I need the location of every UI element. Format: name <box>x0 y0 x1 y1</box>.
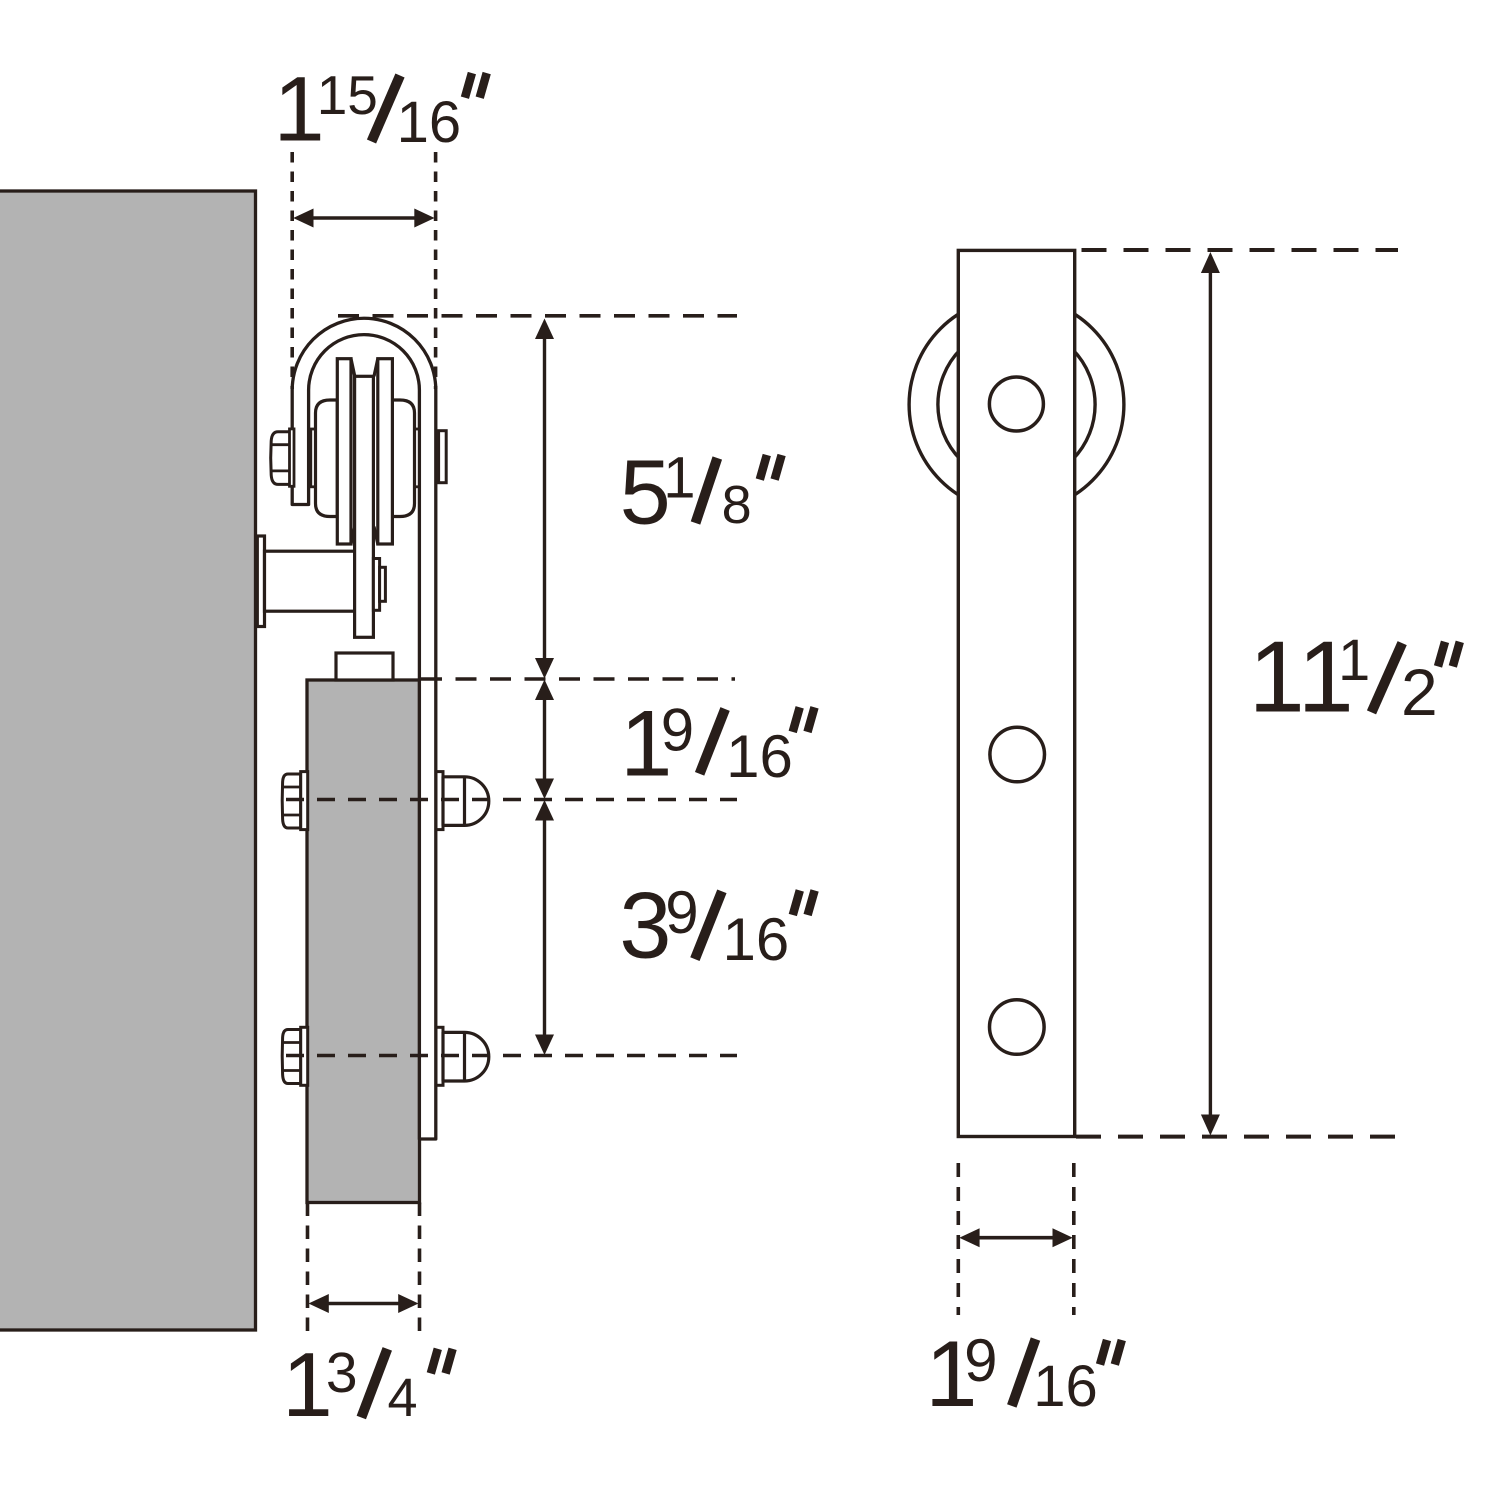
label 1 3/4 inch <box>282 1335 453 1436</box>
axle washer left (between leg and hub) <box>311 429 316 487</box>
door bolt 1 washer right <box>436 772 443 830</box>
svg-text:2: 2 <box>1401 655 1438 729</box>
svg-text:3: 3 <box>326 1341 358 1405</box>
dimension 11 1/2 vertical line with arrowheads <box>1209 264 1212 1124</box>
dimension 1 15/16 arrow <box>308 216 420 220</box>
label 1 9/16 inch (left view) <box>620 691 814 796</box>
dimension 5 1/8 vertical line with arrowheads <box>543 330 546 667</box>
svg-text:9: 9 <box>665 879 698 946</box>
door stop block <box>336 653 393 680</box>
svg-text:1: 1 <box>1249 622 1305 734</box>
dimension 3 9/16 vertical line with arrowheads <box>543 811 546 1044</box>
rail flat bar (vertical, under wheel) <box>355 376 374 637</box>
svg-text:1: 1 <box>663 446 695 511</box>
dimension 1 3/4 dashed extension left <box>306 1203 310 1338</box>
strap top reference dashed line <box>1082 248 1399 252</box>
svg-text:8: 8 <box>722 475 752 535</box>
axle end plate right <box>439 431 447 483</box>
axle washer right (between hub and leg) <box>414 429 419 487</box>
bolt 1 centerline dashed <box>286 798 737 802</box>
label 1 9/16 inch (right view) <box>925 1321 1122 1426</box>
wheel groove slant top-left <box>351 359 355 377</box>
svg-text:16: 16 <box>1033 1354 1098 1419</box>
axle bolt washer <box>290 429 295 486</box>
wheel flange left (edge-on disc) <box>337 359 351 544</box>
svg-text:9: 9 <box>661 696 694 763</box>
svg-text:3: 3 <box>619 873 671 978</box>
svg-text:1: 1 <box>1338 628 1370 693</box>
strap hole top (axle) <box>989 377 1043 431</box>
door bolt 2 acorn nut <box>443 1032 489 1081</box>
wheel hub boss left <box>316 400 338 517</box>
door bolt 1 acorn nut <box>443 777 489 826</box>
dimension 1 15/16 dashed extension left <box>290 152 294 389</box>
strap hole middle <box>990 727 1045 782</box>
svg-text:16: 16 <box>397 90 462 155</box>
door bolt 1 washer left <box>301 772 308 830</box>
wheel hub boss right <box>392 400 414 517</box>
dimension 1 9/16 dashed extension right (right view) <box>1072 1163 1076 1315</box>
label 11 1/2 inch <box>1249 622 1460 734</box>
wheel groove slant bottom-right <box>374 527 378 544</box>
door bolt 2 washer left <box>301 1027 308 1085</box>
bolt 2 centerline dashed <box>286 1054 737 1058</box>
hanger strap side view (U-hook over wheel + long leg on door) <box>292 318 436 1139</box>
axle hex bolt head <box>271 432 292 485</box>
svg-text:9: 9 <box>964 1327 997 1394</box>
wheel outer circle (front view) <box>909 297 1124 512</box>
door panel (gray) <box>307 680 420 1203</box>
dimension 1 3/4 arrow <box>322 1302 405 1306</box>
dimension 1 9/16 arrow (right view) <box>973 1236 1059 1240</box>
wall panel (gray, left) <box>0 191 256 1330</box>
strap flat bar (front view) <box>958 250 1074 1136</box>
dimension 1 3/4 dashed extension right <box>418 1203 422 1338</box>
svg-text:4: 4 <box>388 1368 418 1428</box>
dimension 1 9/16 vertical line with arrowheads <box>543 690 546 789</box>
label 3 9/16 inch <box>619 873 814 978</box>
hanger top reference dashed line <box>338 314 737 318</box>
svg-text:15: 15 <box>317 64 378 126</box>
wheel groove slant top-right <box>374 359 378 377</box>
door bolt 1 hex head <box>282 774 301 828</box>
door bolt 2 washer right <box>436 1027 443 1085</box>
svg-text:16: 16 <box>723 906 790 973</box>
label 5 1/8 inch <box>620 442 782 544</box>
rail mounting nut step 1 <box>373 559 379 611</box>
wheel groove slant bottom-left <box>351 527 355 544</box>
strap bottom reference dashed line <box>1076 1135 1395 1139</box>
spacer cylinder <box>265 551 365 611</box>
door top reference dashed line <box>421 677 735 681</box>
wheel inner circle (front view) <box>938 326 1095 483</box>
svg-text:16: 16 <box>726 723 793 790</box>
dimension 1 15/16 dashed extension right <box>434 152 438 389</box>
label 1 15/16 inch <box>274 59 487 161</box>
wheel flange right (edge-on disc) <box>378 359 393 544</box>
door bolt 2 hex head <box>282 1030 301 1084</box>
strap hole bottom <box>990 1000 1045 1055</box>
rail mounting nut step 2 <box>380 567 386 601</box>
spacer flange plate at wall <box>257 536 264 627</box>
dimension 1 9/16 dashed extension left (right view) <box>956 1163 960 1315</box>
